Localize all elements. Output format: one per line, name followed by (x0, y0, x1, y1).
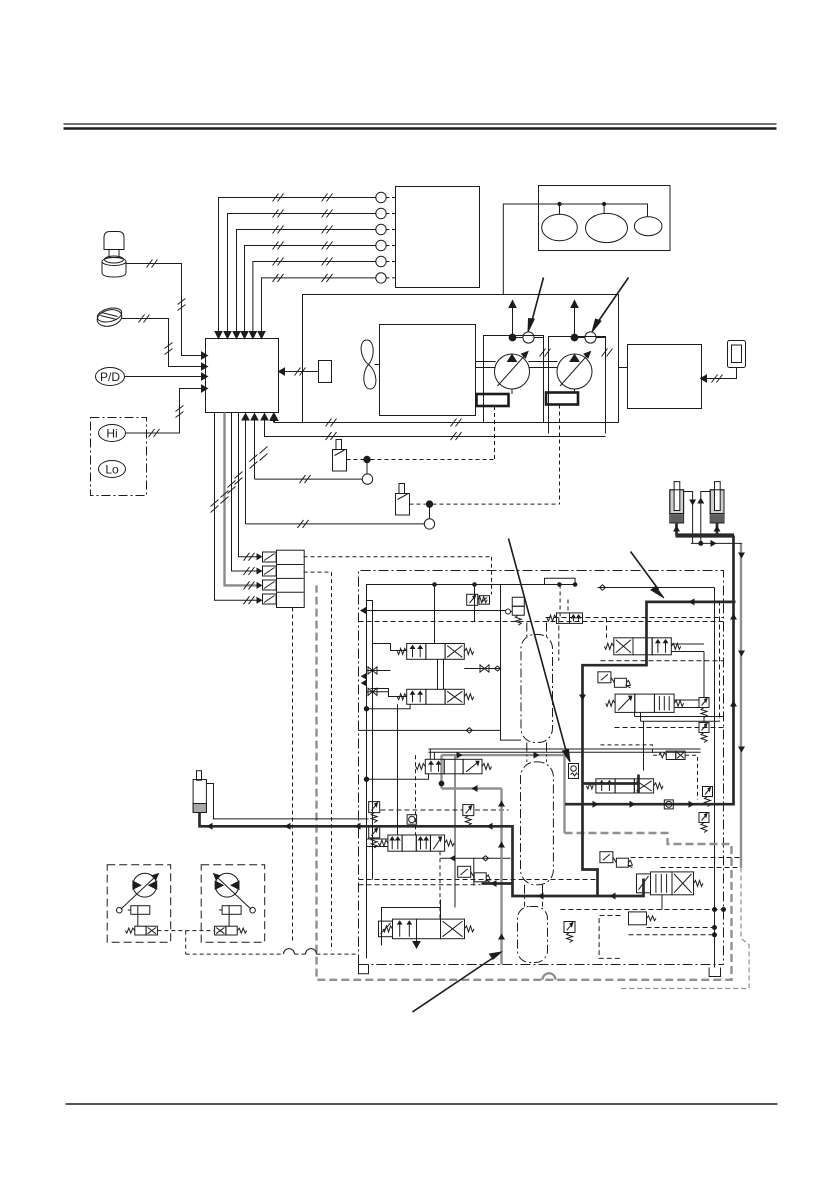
solenoid valve Y1 (333, 440, 347, 472)
pilot relief valve RV1 (467, 594, 488, 605)
directional valve V2 (397, 689, 474, 704)
wire feedback 4 to controller bottom (270, 414, 277, 423)
wire lamp L2 to controller (224, 210, 376, 339)
junction dots rail (558, 583, 577, 587)
Lo switch (99, 461, 126, 478)
wire filter to reservoir (701, 368, 737, 383)
junction node (364, 456, 370, 462)
wire (367, 670, 391, 672)
wire V2 bottom feed (364, 704, 410, 711)
connector lamp L6 (376, 273, 386, 283)
travel motor M2 servo actuator (219, 906, 241, 915)
wire Y1 pilot dashed (347, 460, 495, 475)
pump1 servo block (477, 394, 509, 406)
pump2 charge tap (571, 301, 606, 344)
wire lamp L5 to controller (249, 258, 375, 339)
dashed pilot to V8 (415, 755, 417, 834)
anti-cav valve RV9 (463, 805, 474, 826)
dashed enclosure right (719, 601, 721, 722)
check valve CV3 (480, 665, 489, 672)
P/D switch (96, 368, 125, 386)
svg-text:P/D: P/D (100, 370, 120, 384)
cylinder C2 (710, 482, 724, 523)
callout arrow to tap1 (528, 278, 544, 333)
dashed rail 867 (661, 867, 742, 869)
orifice OR2 (664, 800, 673, 809)
pilot loop above rail (545, 578, 576, 584)
wire V4 right ports (674, 700, 704, 723)
wire pump2 pressure feedback (246, 520, 425, 528)
pressure transducer B2 (424, 519, 434, 529)
dashed drop (606, 618, 608, 638)
relief valve RV2 (699, 698, 709, 718)
wire (473, 858, 475, 885)
dashed drop (559, 585, 561, 618)
wire controller to stack row 4 (215, 413, 263, 605)
manifold inner rail top (367, 583, 576, 959)
wire (434, 585, 436, 644)
directional valve V9 (416, 759, 492, 774)
wire V8 left ports (367, 839, 388, 847)
SEC-MANIFOLD (193, 482, 749, 1012)
gray hop on bottom line (543, 973, 556, 979)
wire rail 730 (359, 728, 501, 733)
wire Hi to controller (126, 385, 208, 437)
travel motor M2 motor (214, 873, 256, 913)
wire rail 610 (363, 610, 506, 612)
stack solenoid 3 (263, 580, 277, 590)
dashed rail 857 (631, 857, 742, 859)
wire V1-V2 (437, 659, 439, 689)
connector lamp L2 (376, 208, 386, 218)
wire dial to controller (122, 315, 208, 371)
wire (439, 851, 441, 919)
swivel boundary main (521, 762, 554, 885)
svg-text:Hi: Hi (106, 427, 117, 441)
wire controller to stack row 3 (225, 413, 263, 590)
junction node (439, 781, 444, 786)
svg-text:Lo: Lo (105, 463, 119, 477)
pump2 servo block (546, 393, 578, 405)
wire servo1 pilot (494, 406, 496, 460)
wire sensor to controller (279, 368, 319, 376)
wire M1-M2 pilot dashed (157, 931, 283, 955)
directional valve V3 (604, 638, 681, 655)
header rule thin (64, 123, 777, 125)
SEC-LEFT (91, 232, 208, 496)
SEC-CTRL (206, 187, 560, 608)
pilot X valve VX (659, 751, 685, 759)
dashed rail 660 (601, 660, 724, 662)
wire pilot dashed cont (317, 953, 359, 955)
wire C2 rod side (701, 492, 710, 544)
pump1 assembly frame (484, 336, 551, 423)
SEC-BOTTOM (107, 865, 358, 954)
travel motor M2 control valve (215, 914, 247, 935)
header rule thick (64, 127, 777, 129)
RV1 second stage (479, 596, 490, 605)
check valve CV1 (368, 667, 377, 674)
dashed rail 884 (359, 884, 481, 886)
pulley 2 (586, 213, 628, 242)
dashed rail 909 (561, 910, 724, 935)
wire feedback 3 to controller bottom (261, 414, 268, 437)
pilot hop 2 (306, 949, 317, 954)
pulley 3 (634, 217, 662, 236)
cooling fan (361, 340, 379, 389)
pump2 assembly frame (549, 337, 613, 434)
wire left feed column (372, 611, 374, 880)
connector lamp L4 (376, 240, 386, 250)
wire lamp L1 to controller (215, 194, 376, 339)
hydrostatic pump P2 (557, 352, 592, 390)
joystick S1 (102, 232, 126, 278)
engine box (380, 325, 476, 416)
travel motor M2 enclosure (201, 865, 265, 942)
cylinder C1 (670, 482, 684, 523)
gray LS line vertical (442, 755, 565, 964)
controller U1 (206, 339, 279, 413)
wire lamp L4 to controller (241, 242, 376, 339)
wire y858 (441, 857, 511, 859)
reservoir box (628, 345, 702, 409)
pulley 1 (542, 214, 578, 241)
tank port T1 (709, 968, 720, 977)
relief valve RV5 (699, 813, 709, 833)
stack row4 pilot dashed (292, 608, 294, 942)
wire to T1 (714, 588, 716, 968)
hydrostatic pump P1 (495, 352, 530, 390)
junction node (426, 501, 432, 507)
wire (501, 585, 522, 741)
directional valve V8 (378, 835, 454, 851)
port circle (506, 609, 511, 614)
stack row2 pilot dashed (304, 572, 332, 950)
wire V2-V8 feed (397, 704, 399, 834)
valve VT3 (547, 613, 583, 624)
gray LS dashed return (317, 585, 732, 979)
directional valve V5 (586, 779, 663, 793)
stack row1 pilot dashed (304, 556, 492, 558)
solenoid valve Y2 (396, 484, 410, 516)
relief valve RV8 (564, 922, 575, 943)
RV1 drain stub (491, 557, 493, 595)
wire frame bottom 1 (271, 414, 619, 427)
relief valve RV4 (703, 787, 713, 807)
dashed rail 727 (615, 727, 724, 729)
thick supply line cylinders (676, 533, 735, 537)
wire servo2 pilot (559, 405, 561, 505)
footer rule (66, 1103, 778, 1105)
engine compartment frame (303, 295, 628, 423)
sensor box right of controller (319, 361, 332, 383)
dashed box right of RV8 (599, 916, 620, 959)
travel motor M1 control valve (125, 914, 157, 935)
wire feedback 1 to controller bottom (242, 414, 249, 524)
wire C3 rod side (206, 784, 368, 819)
wire V4 bottom ports (635, 712, 724, 770)
wire C1 rod side (684, 492, 693, 544)
thick loader line (200, 812, 644, 896)
callout arrow to tap2 (592, 278, 629, 333)
wire mid check (464, 668, 500, 670)
pressure compensator PC1 (598, 672, 631, 688)
check valve CV2 (368, 688, 377, 695)
dashed drop (558, 618, 560, 661)
wire frame bottom 2 (264, 432, 605, 440)
pressure compensator PC2 (600, 852, 633, 868)
pump1 charge tap (509, 301, 544, 344)
wire lamp L6 to controller (258, 274, 376, 339)
dashed rail 617 (546, 617, 724, 619)
wire (367, 691, 389, 693)
directional valve V7 (379, 919, 475, 939)
wire controller to stack row 2 (232, 413, 263, 576)
SEC-ENGINE (264, 186, 745, 505)
directional valve V6 (637, 872, 704, 895)
callout arrow check CV5 (509, 539, 571, 763)
wire rod return (691, 541, 742, 545)
dashed drop (567, 600, 569, 613)
V7 frame (382, 900, 441, 949)
pilot rail dashed (359, 621, 724, 623)
pilot dashes around VX (601, 745, 698, 800)
swivel neck 2 (525, 885, 543, 907)
thick branch V5 (583, 775, 639, 794)
filter indicator (728, 341, 746, 368)
junction dots (713, 908, 726, 937)
directional valve V4 (606, 694, 684, 712)
wire (443, 659, 445, 689)
wire feedback 2 to controller bottom (251, 414, 258, 480)
callout arrow LS line (413, 952, 502, 1012)
wire joystick to controller (127, 260, 208, 360)
gray case drain right (740, 543, 742, 867)
cylinder C3 (193, 771, 206, 813)
pilot hop 1 (284, 949, 295, 954)
wire pump1 pressure feedback (255, 475, 363, 483)
wire V3 right ports (671, 644, 704, 698)
pilot valve stack (277, 550, 305, 607)
relief valve RV3 (699, 723, 709, 743)
wire Y2 pilot dashed (410, 504, 560, 519)
wire controller to stack row 1 (239, 413, 263, 561)
wire V6 bottom stub (661, 895, 663, 910)
wire (474, 585, 476, 622)
pressure compensator PC3 (458, 866, 491, 882)
pump drive shaft (476, 362, 558, 368)
wire loop V2 left (371, 689, 407, 697)
stack solenoid 4 (263, 594, 277, 604)
belt line (503, 202, 647, 294)
wire P/D to controller (125, 373, 208, 380)
wire rail 587 (598, 585, 715, 590)
wire lamp L3 to controller (233, 226, 376, 339)
travel motor M1 servo actuator (128, 906, 150, 915)
swivel neck 1 (527, 743, 547, 762)
wire V9 feed (364, 774, 428, 782)
connector lamp L3 (376, 224, 386, 234)
relief valve RV6 (369, 802, 380, 823)
connector lamp L1 (376, 192, 386, 202)
travel motor M1 enclosure (107, 865, 171, 942)
solenoid cartridge VT2 (511, 597, 525, 625)
pulley/belt box (539, 186, 671, 251)
directional valve V1 (397, 644, 474, 660)
relief valve RV7 (369, 827, 380, 848)
rail pair (429, 749, 701, 752)
dashed rail 818 (381, 809, 509, 811)
V9 top stubs (430, 749, 434, 759)
Hi switch (99, 425, 126, 442)
dashed rail 879 (359, 879, 596, 881)
tank port T2 (359, 965, 369, 974)
wire (454, 755, 456, 907)
callout arrow thick corner (631, 552, 665, 599)
stack solenoid 2 (263, 566, 277, 576)
wire pilot dashed cont (295, 953, 306, 955)
stack solenoid 1 (263, 552, 277, 562)
wire loop V1 left (367, 601, 407, 651)
thick branch to manifold (583, 602, 736, 896)
manifold dash-dot border (359, 571, 724, 965)
check valve CV5 (569, 764, 579, 779)
pump servo stubs (512, 389, 575, 394)
diamond (495, 666, 501, 671)
pressure transducer B1 (362, 474, 372, 484)
travel motor M1 motor (117, 873, 159, 913)
swivel boundary lower (518, 907, 548, 963)
pilot valve PV1 (629, 912, 657, 925)
dial/thumbwheel S2 (95, 306, 123, 329)
swivel boundary upper (521, 623, 553, 743)
instrument panel box U2 (396, 187, 480, 288)
Hi/Lo dashed enclosure (91, 418, 147, 496)
orifice OR1 (407, 815, 417, 825)
connector lamp L5 (376, 256, 386, 266)
